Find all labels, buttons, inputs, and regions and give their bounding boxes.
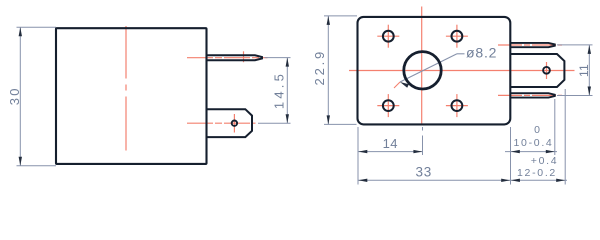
svg-text:22.9: 22.9 — [312, 49, 327, 86]
svg-text:30: 30 — [7, 86, 22, 105]
svg-text:0: 0 — [534, 124, 541, 136]
svg-text:14: 14 — [383, 136, 398, 151]
svg-text:ø8.2: ø8.2 — [466, 45, 497, 61]
svg-text:14.5: 14.5 — [272, 71, 287, 109]
svg-text:12-0.2: 12-0.2 — [517, 167, 557, 179]
svg-text:33: 33 — [415, 165, 431, 180]
svg-text:11: 11 — [577, 64, 591, 77]
svg-text:+0.4: +0.4 — [531, 155, 559, 167]
svg-text:10-0.4: 10-0.4 — [514, 137, 554, 149]
